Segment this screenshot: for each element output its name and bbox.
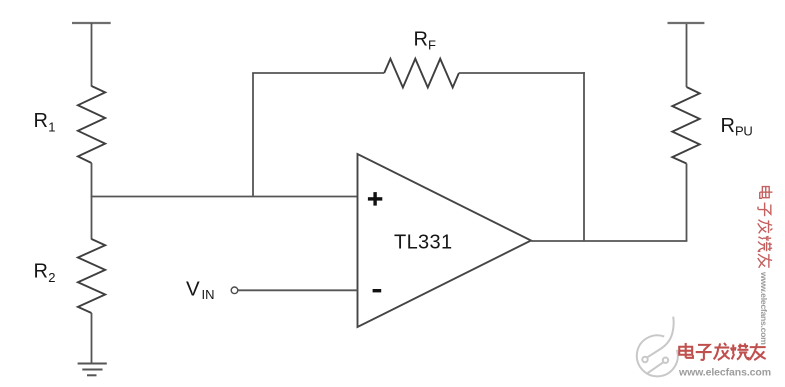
wire R1 to node A	[91, 163, 93, 197]
resistor R2	[78, 239, 105, 313]
resistor RF	[384, 59, 459, 88]
svg-text:F: F	[428, 38, 436, 53]
svg-text:www.elecfans.com: www.elecfans.com	[678, 367, 771, 379]
resistor R1	[78, 86, 105, 163]
svg-text:IN: IN	[202, 287, 215, 302]
op-amp U1 TL331 triangle	[358, 154, 532, 327]
power rail VCC left (T-bar)	[72, 22, 111, 24]
wire feedback right vertical	[583, 72, 585, 241]
svg-text:1: 1	[48, 120, 55, 135]
ground	[78, 364, 107, 376]
svg-text:www.elecfans.com: www.elecfans.com	[759, 271, 769, 345]
wire feedback top right horizontal	[459, 72, 585, 74]
label R1	[34, 110, 56, 135]
wire node A to plus input	[91, 196, 358, 198]
wire VIN to minus input	[238, 289, 358, 291]
wire RPU to VCC right	[686, 23, 688, 87]
svg-text:R: R	[34, 261, 48, 283]
watermark logo circle bottom right	[637, 317, 678, 377]
resistor RPU	[672, 87, 699, 164]
svg-text:TL331: TL331	[394, 232, 452, 254]
minus input symbol	[373, 289, 382, 292]
label R2	[34, 261, 56, 286]
wire feedback tap vertical	[252, 73, 254, 197]
power rail VCC right (T-bar)	[668, 22, 705, 24]
svg-text:R: R	[414, 29, 428, 51]
wire VCC left to R1	[91, 23, 93, 87]
wire output	[531, 240, 687, 242]
svg-text:V: V	[186, 278, 200, 301]
svg-text:R: R	[721, 115, 735, 137]
input terminal VIN circle	[231, 287, 238, 294]
watermark vertical text right edge 电子发烧友	[758, 187, 773, 268]
svg-text:R: R	[34, 110, 48, 132]
wire R2 to ground	[91, 313, 93, 364]
plus input symbol	[368, 192, 382, 206]
watermark vertical text right edge www.elecfans.com	[759, 271, 769, 345]
label RF	[414, 29, 437, 53]
label RPU	[721, 115, 753, 139]
label VIN	[186, 278, 215, 302]
wire output to RPU	[686, 164, 688, 242]
svg-text:2: 2	[48, 270, 55, 285]
wire node A to R2	[91, 197, 93, 240]
watermark text bottom 电子发烧友	[679, 343, 765, 360]
wire feedback top left horizontal	[252, 72, 384, 74]
svg-text:PU: PU	[735, 124, 752, 139]
